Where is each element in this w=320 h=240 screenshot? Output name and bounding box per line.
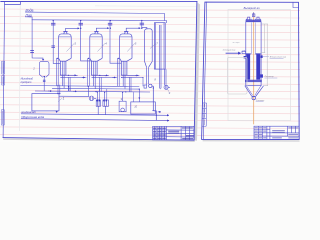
small vessel (pos 9) xyxy=(119,92,126,112)
apparatus top stub xyxy=(252,12,255,16)
faint grey box left of cone xyxy=(227,57,247,94)
sheet 2 top-right notch xyxy=(293,2,299,7)
svg-text:Оборотная вода: Оборотная вода xyxy=(21,115,44,119)
vapor pipe vessel2 to header xyxy=(96,28,109,31)
tank (pos 1) xyxy=(32,94,59,111)
riser/valve column feed xyxy=(140,21,144,29)
barometric box (pos 10) xyxy=(131,102,156,114)
steam inlet pipe left with arrow xyxy=(226,52,241,54)
pipe junction dots xyxy=(53,20,157,116)
vapor pipe vessel3 to header xyxy=(126,28,140,31)
svg-text:вх. пара: вх. пара xyxy=(233,42,240,44)
faint vertical crease line left xyxy=(18,2,21,131)
sheet 2 shadow bottom xyxy=(203,140,300,142)
sheet 2 title block xyxy=(254,126,299,139)
bottom flange bands xyxy=(245,80,262,82)
riser/valve vessel 2 feed xyxy=(79,21,92,61)
left side nozzle xyxy=(242,51,246,54)
sheet 1 right border xyxy=(194,1,197,140)
pumps cluster A xyxy=(96,100,100,107)
transfer arrows on collector pipes xyxy=(73,75,138,77)
title block text smudges xyxy=(153,127,194,139)
svg-text:Вторичный пар: Вторичный пар xyxy=(270,56,287,59)
column dome pipe to header riser xyxy=(142,28,147,30)
dimension lines right (grey) xyxy=(260,24,268,86)
heating tube bundles (solid) xyxy=(246,54,260,79)
margin stamp box 1 (vertical text) xyxy=(2,61,5,74)
sheet 1 corner notch box xyxy=(5,2,21,5)
sheet 2 frame border xyxy=(202,2,300,139)
svg-text:Выпарной ап.: Выпарной ап. xyxy=(244,6,261,10)
sheet 2 left margin cells xyxy=(202,103,206,126)
barometric condenser (pos 8) xyxy=(154,23,166,89)
small arrow stub above title block xyxy=(152,111,161,112)
steam header line xyxy=(25,17,32,20)
pumps cluster B xyxy=(103,100,109,107)
sheet 2 left inner frame line xyxy=(203,2,206,139)
water header line xyxy=(25,12,164,13)
evaporator vessel 2 xyxy=(88,32,118,92)
svg-text:2: 2 xyxy=(32,67,35,71)
faint backing page edge top right xyxy=(95,5,196,8)
riser/valve vessel 3 feed xyxy=(108,21,121,64)
evaporator vessel 1 xyxy=(56,32,86,92)
condensate collect line xyxy=(52,87,139,90)
drop arrow into box xyxy=(138,89,140,102)
condensate pipe xyxy=(21,114,169,116)
sheet 1 shadow bottom xyxy=(3,138,195,142)
svg-text:Греющий пар: Греющий пар xyxy=(223,49,236,52)
svg-text:1: 1 xyxy=(63,97,65,101)
vacuum pump circle xyxy=(164,85,170,91)
distillation column (pos 6) xyxy=(144,29,156,121)
sheet 1 title block xyxy=(153,126,194,139)
sheet 1 top border xyxy=(1,0,197,2)
tank feed pipes xyxy=(58,85,70,94)
vapor distribution header xyxy=(32,19,164,22)
sheet 1 left inner frame line xyxy=(3,2,5,138)
margin stamp box 2 xyxy=(2,76,5,85)
equipment position labels xyxy=(32,41,170,101)
drop from V3 collector to solution main xyxy=(142,78,144,87)
right upper label with underline xyxy=(263,56,287,59)
cone bottom xyxy=(245,86,264,100)
apparatus centerline (orange) xyxy=(253,12,255,124)
riser/valve vessel 1 xyxy=(52,21,61,64)
margin stamp box 3 xyxy=(1,110,4,125)
label 1 xyxy=(58,97,65,102)
right lower label with underline xyxy=(264,76,277,78)
tank outlet arrow xyxy=(56,111,58,113)
preheater vessel (pos 2) xyxy=(39,59,49,91)
vapor pipe vessel1 to header xyxy=(66,28,80,31)
sheet 1 shadow right xyxy=(194,3,200,141)
side nozzle ears dark xyxy=(244,55,263,58)
feed line horizontal xyxy=(20,86,139,87)
svg-text:Исходный: Исходный xyxy=(21,76,34,80)
paper background xyxy=(0,0,300,142)
pump cluster drops to condensate line xyxy=(97,89,133,115)
valve on preheater dropper xyxy=(31,51,34,53)
sheet 1 bottom border xyxy=(3,138,194,141)
right side nozzle lower xyxy=(260,75,262,78)
svg-text:продукт: продукт xyxy=(21,80,33,84)
tube plate bars xyxy=(246,53,261,54)
recycled water pipe xyxy=(21,119,169,121)
sheet2 title block text smudges xyxy=(255,127,299,138)
transfer line with arrows xyxy=(35,91,150,92)
water line jog down to condenser xyxy=(164,14,166,23)
svg-text:конденсат: конденсат xyxy=(21,110,36,114)
evaporator vessel 3 xyxy=(117,32,143,92)
apparatus top cap nozzles xyxy=(246,17,262,21)
apparatus body xyxy=(246,22,261,86)
pump circle (pos 11) xyxy=(59,86,96,101)
pink ruled lines of backing paper xyxy=(0,9,300,136)
steam dropper to preheater xyxy=(32,20,43,60)
drawing view area faint rect xyxy=(228,10,291,121)
